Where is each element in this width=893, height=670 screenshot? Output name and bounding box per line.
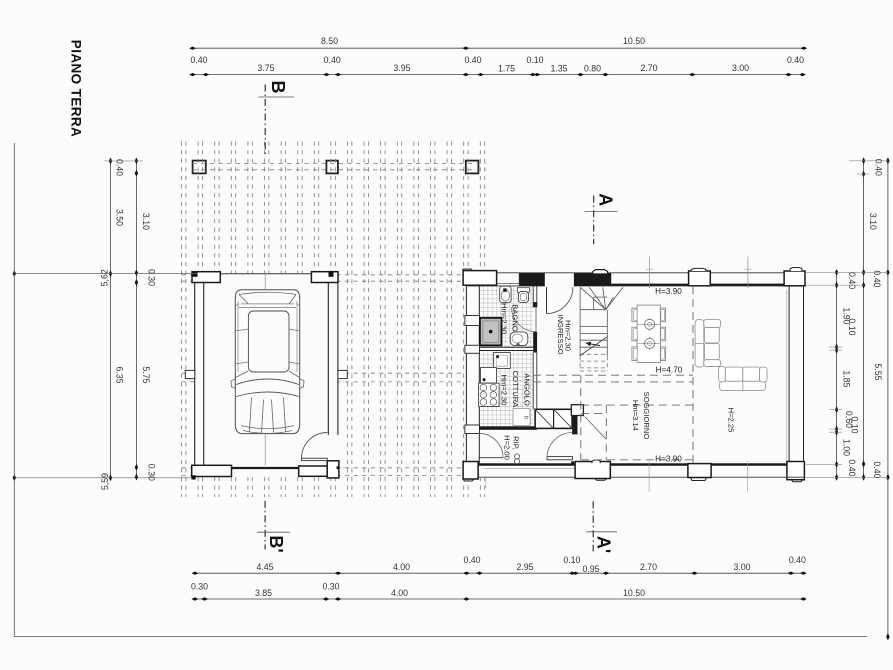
svg-text:1.35: 1.35: [550, 64, 567, 74]
right inner dim line: [836, 272, 838, 477]
garage right wall pilaster: [338, 370, 347, 378]
svg-text:0.40: 0.40: [463, 555, 480, 565]
svg-text:0.40: 0.40: [872, 461, 882, 478]
entrance door arc: [547, 287, 573, 313]
top wall black segment 1: [519, 273, 545, 286]
svg-text:3.00: 3.00: [733, 562, 750, 572]
cooktop with burners: [479, 383, 500, 406]
partition lower (cucina): [532, 353, 534, 410]
toilet wc: [517, 288, 529, 293]
garage pedestrian door leaf: [302, 458, 328, 460]
house right wall: [788, 286, 790, 464]
svg-text:0.40: 0.40: [872, 270, 882, 287]
RIP exterior door arc: [479, 433, 503, 457]
bagno window sill: [497, 283, 520, 285]
pillar block at RIP wall top: [571, 405, 583, 416]
right wall bottom corner block: [787, 462, 805, 480]
svg-text:0.95: 0.95: [582, 564, 599, 574]
partition filled segment: [533, 332, 537, 353]
svg-text:5.55: 5.55: [873, 363, 883, 380]
svg-text:H=4.70: H=4.70: [656, 366, 683, 375]
stairs direction arrow: [590, 344, 601, 346]
garage right wall: [327, 283, 329, 435]
cucina-rip divider wall: [479, 426, 537, 430]
bottom wall left corner block: [463, 462, 478, 480]
svg-text:H=2.00: H=2.00: [503, 435, 512, 460]
svg-text:0.40: 0.40: [115, 159, 125, 176]
svg-text:0.30: 0.30: [147, 269, 157, 286]
svg-text:0.40: 0.40: [847, 272, 857, 289]
bottom wall heating pipes (2 circles): [514, 454, 519, 459]
pergola post P2: [326, 161, 338, 174]
garage bottom-right wall: [299, 466, 328, 476]
wardrobe boxes with diagonals: [535, 409, 572, 428]
svg-text:0.40: 0.40: [874, 159, 884, 176]
left wall pilaster blocks: [465, 316, 480, 326]
svg-text:0.10: 0.10: [526, 55, 543, 65]
svg-text:5,59: 5,59: [100, 473, 110, 490]
svg-text:3.10: 3.10: [868, 213, 878, 230]
bagno door arc: [512, 308, 537, 332]
garage bottom-left wall: [192, 465, 232, 476]
svg-text:2.70: 2.70: [640, 63, 657, 73]
svg-text:BAGNO: BAGNO: [511, 304, 520, 332]
svg-text:0.80: 0.80: [584, 64, 601, 74]
RIP inner floor line: [483, 467, 575, 469]
sheet frame left: [13, 143, 15, 637]
svg-text:PIANO TERRA: PIANO TERRA: [69, 40, 84, 137]
svg-text:3.75: 3.75: [257, 63, 274, 73]
svg-text:4.00: 4.00: [393, 562, 410, 572]
svg-text:3.85: 3.85: [255, 588, 272, 598]
sottoscala diagonal: [585, 417, 606, 440]
svg-text:RIP,: RIP,: [512, 436, 521, 450]
cucina floor tiles: [479, 351, 533, 427]
garage corner pillar marks: [193, 272, 198, 277]
bagno door leaf: [535, 307, 537, 332]
bottom dim chain detail: [195, 572, 804, 574]
top wall right corner block: [784, 271, 805, 286]
svg-text:0.10: 0.10: [850, 416, 860, 433]
garage top opening line: [220, 273, 311, 275]
svg-text:Hm=3.14: Hm=3.14: [631, 400, 640, 431]
bagno floor tiles: [479, 286, 533, 347]
svg-text:Hm=2.30: Hm=2.30: [564, 320, 573, 351]
svg-text:Hm=2.30: Hm=2.30: [500, 303, 509, 334]
ceiling zone dashed lines: [533, 286, 693, 464]
right middle dim line: [863, 161, 865, 478]
svg-text:6.35: 6.35: [115, 366, 125, 383]
svg-text:SOGGIORNO: SOGGIORNO: [642, 392, 651, 440]
svg-text:H=3.90: H=3.90: [655, 287, 682, 296]
section marker A: [593, 196, 595, 244]
bottom wall pillar mid-soggiorno: [688, 464, 711, 478]
svg-text:5,62: 5,62: [100, 269, 110, 286]
svg-text:COTTURA: COTTURA: [511, 371, 520, 409]
svg-text:Hm=2.30: Hm=2.30: [500, 374, 509, 405]
svg-text:4.00: 4.00: [391, 588, 408, 598]
top dim chain detail: [193, 74, 803, 76]
svg-text:H=2.25: H=2.25: [727, 408, 736, 433]
dining table: [637, 305, 660, 362]
svg-text:1.85: 1.85: [841, 370, 851, 387]
svg-text:A': A': [594, 536, 614, 553]
svg-text:0.40: 0.40: [464, 55, 481, 65]
top wall pillar bump mid (chimney): [593, 270, 608, 274]
house body (masks grid): [466, 273, 804, 478]
garage bottom-right corner block: [327, 461, 339, 478]
svg-text:0.30: 0.30: [147, 464, 157, 481]
bagno-cucina divider: [479, 346, 537, 348]
svg-text:ANGOLO: ANGOLO: [523, 373, 532, 406]
washbasin: [500, 286, 511, 302]
svg-text:0.30: 0.30: [191, 582, 208, 592]
svg-text:0.10: 0.10: [563, 555, 580, 565]
kitchen sink unit: [494, 353, 511, 369]
top wall window inner thick line (soggiorno windows): [611, 284, 788, 286]
RIP door swing arc: [547, 433, 573, 459]
left outer dim line: [110, 161, 112, 478]
right outer line: [887, 161, 889, 637]
svg-text:B: B: [268, 81, 288, 94]
svg-text:1.75: 1.75: [498, 64, 515, 74]
svg-text:8.50: 8.50: [321, 36, 338, 46]
chairs: [632, 308, 666, 360]
garage top-left corner wall: [192, 272, 220, 283]
entrance door leaf: [546, 287, 548, 313]
sheet frame bottom: [14, 636, 867, 638]
svg-text:0.40: 0.40: [787, 55, 804, 65]
section marker B': [264, 501, 266, 550]
partition bagno-ingresso upper: [532, 286, 534, 307]
stairs hidden (dashed): [580, 354, 607, 371]
left inner dim line: [135, 161, 137, 477]
top dim chain overall: [193, 47, 804, 49]
RIP door leaf: [547, 457, 573, 460]
svg-text:5.75: 5.75: [141, 366, 151, 383]
shower tray: [480, 318, 502, 346]
kitchen unit 2: [481, 368, 497, 384]
top wall pillar block left corner: [463, 271, 497, 286]
svg-text:fr: fr: [522, 416, 528, 420]
pergola roof beam grid (dashed): [182, 142, 487, 498]
svg-text:B': B': [266, 535, 286, 552]
section marker A': [592, 501, 594, 551]
bottom dim chain overall: [195, 598, 804, 600]
svg-text:4.45: 4.45: [256, 562, 273, 572]
garage left wall pilaster: [185, 370, 194, 378]
svg-text:3.50: 3.50: [115, 209, 125, 226]
garage body (masks grid): [195, 273, 338, 477]
top wall pillar block at 2.70/3.00 junction: [689, 271, 711, 286]
staircase: [580, 287, 623, 356]
svg-text:0.30: 0.30: [322, 582, 339, 592]
svg-text:3.10: 3.10: [141, 213, 151, 230]
stairs cut line: [580, 337, 608, 356]
sofa L-shaped: [695, 319, 767, 390]
garage door (basculante) threshold: [232, 467, 299, 469]
garage top-right corner wall: [311, 272, 338, 283]
right extension lines: [806, 271, 888, 273]
svg-text:0.40: 0.40: [324, 55, 341, 65]
house top wall band: [466, 272, 804, 274]
garage left wall: [194, 283, 196, 466]
svg-text:H=3.90: H=3.90: [655, 454, 682, 463]
svg-text:3.95: 3.95: [393, 63, 410, 73]
svg-text:10.50: 10.50: [623, 36, 645, 46]
svg-text:0.40: 0.40: [847, 459, 857, 476]
left extension lines: [14, 273, 197, 275]
svg-text:0.40: 0.40: [789, 555, 806, 565]
top wall black segment 2: [574, 273, 611, 286]
pergola post P1: [193, 161, 206, 174]
plates: [645, 319, 655, 329]
RIP exterior door leaf: [479, 457, 503, 459]
car (top view): [231, 290, 304, 434]
svg-text:0.10: 0.10: [847, 318, 857, 335]
svg-text:2.70: 2.70: [640, 562, 657, 572]
bidet: [510, 332, 528, 346]
garage pedestrian door swing arc: [302, 433, 328, 459]
house bottom wall band: [463, 476, 804, 478]
bottom wall window inner thick line: [478, 464, 787, 466]
garage axis line (section B trace): [264, 274, 266, 289]
bottom wall pillar at RIP/soggiorno: [575, 462, 610, 479]
svg-text:1.00: 1.00: [841, 439, 851, 456]
svg-text:2.95: 2.95: [516, 562, 533, 572]
svg-text:10.50: 10.50: [623, 588, 645, 598]
fridge box fr: [513, 409, 530, 426]
pergola post P3: [466, 161, 479, 174]
section marker B: [264, 85, 266, 156]
svg-text:3.00: 3.00: [732, 63, 749, 73]
RIP right wall (black): [572, 406, 577, 435]
house left wall: [465, 285, 467, 464]
svg-text:A: A: [596, 193, 616, 206]
window axis lines: [649, 257, 651, 289]
svg-text:0.40: 0.40: [190, 55, 207, 65]
